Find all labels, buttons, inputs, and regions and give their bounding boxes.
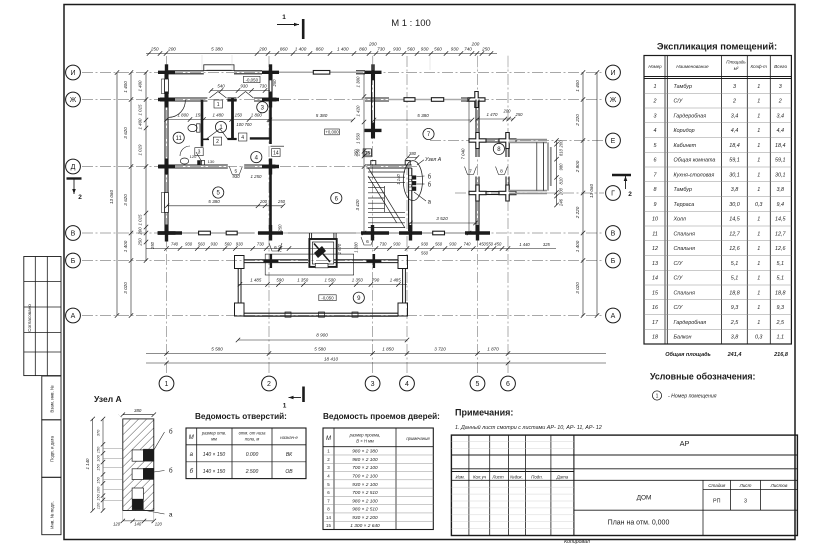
svg-text:8: 8: [500, 169, 503, 175]
svg-text:Изм.: Изм.: [456, 475, 465, 480]
door arc room 11: [169, 100, 185, 118]
svg-text:930: 930: [232, 174, 240, 179]
svg-text:150: 150: [96, 446, 101, 453]
fireplace: [265, 233, 354, 275]
svg-text:5 580: 5 580: [211, 346, 223, 351]
svg-text:назнач-е: назнач-е: [280, 435, 298, 440]
svg-text:Терраса: Терраса: [674, 202, 695, 208]
svg-text:Подп. и дата: Подп. и дата: [50, 436, 55, 462]
svg-text:200: 200: [258, 46, 267, 51]
svg-text:1 480: 1 480: [213, 113, 225, 118]
room number circles: [173, 102, 504, 304]
dimension stair node: [354, 149, 420, 185]
svg-text:1 550: 1 550: [356, 132, 361, 144]
svg-text:120: 120: [96, 502, 101, 509]
partition wardrobe south: [250, 137, 271, 139]
svg-text:6: 6: [654, 158, 657, 164]
svg-text:3 520: 3 520: [436, 216, 448, 221]
room schedule table: [644, 56, 791, 345]
svg-text:14,5: 14,5: [729, 217, 740, 223]
svg-text:450: 450: [494, 242, 502, 247]
svg-text:8 900: 8 900: [316, 333, 328, 338]
axis circles right: [606, 65, 621, 323]
svg-text:216,8: 216,8: [773, 352, 789, 358]
svg-text:200: 200: [138, 227, 143, 236]
svg-text:План на отм. 0,000: План на отм. 0,000: [608, 519, 670, 526]
svg-text:18,8: 18,8: [729, 290, 740, 296]
svg-text:5,1: 5,1: [731, 276, 739, 282]
wall west (axis 1): [158, 72, 176, 241]
svg-text:Б: Б: [611, 258, 616, 265]
terrace: [235, 254, 408, 317]
svg-text:отм. от низа: отм. от низа: [239, 431, 266, 436]
svg-text:2 220: 2 220: [575, 206, 580, 219]
svg-text:4: 4: [241, 135, 244, 141]
dimension right lower: [519, 242, 550, 247]
left GOST strips (Взам/Подп/Инв): [42, 376, 61, 535]
svg-text:АР: АР: [680, 439, 690, 448]
svg-text:Примечания:: Примечания:: [455, 408, 513, 418]
svg-text:980 × 2 380: 980 × 2 380: [352, 449, 378, 455]
svg-text:250: 250: [150, 46, 159, 51]
svg-text:1: 1: [757, 246, 760, 252]
svg-text:4,4: 4,4: [731, 128, 739, 134]
svg-text:590: 590: [276, 278, 284, 283]
svg-text:1 300 × 2 640: 1 300 × 2 640: [350, 523, 380, 529]
svg-text:6: 6: [366, 239, 369, 245]
svg-text:5,1: 5,1: [731, 261, 739, 267]
door mark 6a: [269, 243, 282, 251]
svg-text:930: 930: [449, 242, 457, 247]
svg-text:2: 2: [628, 191, 632, 198]
svg-text:12,7: 12,7: [775, 231, 786, 237]
svg-text:М 1 : 100: М 1 : 100: [391, 18, 431, 29]
svg-text:Коридор: Коридор: [674, 128, 695, 134]
svg-text:Номер: Номер: [648, 64, 662, 69]
svg-text:130: 130: [208, 159, 215, 164]
svg-text:700: 700: [278, 245, 283, 253]
approval strip (Согласовано): [24, 257, 61, 376]
svg-text:740: 740: [464, 46, 472, 51]
svg-text:140 × 150: 140 × 150: [203, 452, 226, 458]
node A dimensions: [85, 408, 162, 527]
svg-text:М: М: [326, 436, 331, 442]
svg-text:1 400: 1 400: [575, 240, 580, 252]
svg-text:1. Данный лист смотри с листам: 1. Данный лист смотри с листами АР- 10, …: [455, 424, 602, 431]
svg-text:Балкон: Балкон: [674, 335, 692, 341]
svg-text:1 400: 1 400: [295, 46, 307, 51]
svg-text:Узел А: Узел А: [94, 394, 122, 404]
svg-text:Тамбур: Тамбур: [674, 84, 692, 90]
svg-text:Узел А: Узел А: [425, 157, 442, 163]
room schedule totals: [665, 351, 789, 358]
svg-text:3,8: 3,8: [731, 187, 739, 193]
elevation -0,050 top: [244, 76, 261, 82]
svg-text:И: И: [70, 70, 75, 77]
svg-text:1 420: 1 420: [356, 105, 361, 117]
node A column: [94, 388, 154, 550]
svg-text:250: 250: [150, 241, 155, 250]
svg-text:150: 150: [96, 463, 101, 470]
svg-text:18: 18: [652, 335, 658, 341]
svg-text:1: 1: [656, 394, 659, 400]
svg-text:980 × 2 100: 980 × 2 100: [352, 498, 378, 504]
svg-text:Экспликация помещений:: Экспликация помещений:: [657, 41, 777, 52]
svg-text:5,1: 5,1: [777, 276, 785, 282]
svg-text:4: 4: [405, 381, 409, 388]
svg-text:930 × 2 100: 930 × 2 100: [352, 482, 378, 488]
svg-text:Дата: Дата: [556, 475, 569, 480]
svg-text:5 580: 5 580: [314, 346, 326, 351]
svg-text:3: 3: [744, 499, 747, 505]
svg-text:1: 1: [757, 99, 760, 105]
stair east wall: [409, 168, 412, 233]
svg-text:100: 100: [96, 486, 101, 493]
door arc wc: [180, 146, 190, 156]
svg-text:810: 810: [559, 177, 564, 185]
svg-text:4: 4: [654, 128, 657, 134]
svg-text:-0,050: -0,050: [246, 77, 259, 82]
svg-text:М: М: [189, 435, 194, 441]
svg-text:пола, м: пола, м: [245, 437, 260, 442]
section mark 1 top: [277, 14, 303, 39]
svg-text:ВК: ВК: [286, 452, 293, 458]
svg-text:6: 6: [506, 381, 510, 388]
dimension 3520: [408, 216, 477, 225]
svg-text:б: б: [169, 467, 173, 475]
svg-text:14,5: 14,5: [775, 217, 786, 223]
svg-text:380: 380: [134, 408, 142, 413]
svg-text:1 400: 1 400: [337, 46, 349, 51]
svg-text:1 350: 1 350: [297, 278, 309, 283]
door mark 6b: [361, 237, 374, 245]
svg-text:18 410: 18 410: [324, 356, 338, 361]
svg-text:1 400: 1 400: [138, 80, 143, 92]
svg-text:5 380: 5 380: [208, 199, 220, 204]
svg-text:560: 560: [225, 242, 233, 247]
door mark 5: [229, 167, 242, 175]
svg-text:325: 325: [543, 242, 551, 247]
section mark 2 left: [67, 179, 83, 202]
svg-text:930: 930: [211, 242, 219, 247]
wall east (axis 5): [469, 100, 486, 234]
svg-text:Гардеробная: Гардеробная: [674, 113, 707, 119]
svg-text:2: 2: [216, 139, 219, 145]
svg-text:250: 250: [277, 199, 286, 204]
svg-text:примечания: примечания: [406, 436, 430, 441]
svg-text:1: 1: [757, 84, 760, 90]
svg-text:Всего: Всего: [774, 64, 787, 69]
svg-text:Ж: Ж: [70, 97, 77, 104]
svg-text:540: 540: [217, 84, 225, 89]
svg-text:5: 5: [476, 381, 480, 388]
svg-text:1: 1: [757, 261, 760, 267]
svg-text:3 620: 3 620: [123, 127, 128, 139]
svg-text:В × Н мм: В × Н мм: [356, 439, 374, 444]
svg-text:3 720: 3 720: [434, 346, 446, 351]
dimension row tambour top: [209, 84, 270, 93]
stair column node A: [403, 157, 441, 205]
dimension column axis3: [355, 73, 366, 236]
svg-text:930 × 2 200: 930 × 2 200: [352, 515, 378, 521]
svg-text:250: 250: [354, 149, 359, 158]
svg-text:И: И: [610, 70, 615, 77]
svg-text:2,5: 2,5: [730, 320, 739, 326]
svg-text:а: а: [169, 512, 173, 519]
svg-text:740: 740: [464, 242, 472, 247]
svg-text:2,5: 2,5: [776, 320, 785, 326]
svg-text:100: 100: [96, 454, 101, 461]
svg-text:3 020: 3 020: [575, 282, 580, 294]
small 250 labels: [272, 79, 283, 233]
dimension chains bottom: [146, 333, 606, 366]
svg-text:30,1: 30,1: [729, 172, 740, 178]
svg-text:Копировал: Копировал: [564, 539, 590, 545]
svg-text:С/У: С/У: [674, 261, 683, 267]
svg-text:11: 11: [176, 136, 183, 142]
svg-text:730: 730: [257, 242, 265, 247]
svg-text:Е: Е: [611, 138, 616, 145]
svg-text:№док.: №док.: [510, 475, 523, 480]
dimension chain top: [146, 42, 508, 71]
svg-text:3,8: 3,8: [777, 187, 785, 193]
svg-text:1 400: 1 400: [138, 118, 143, 130]
svg-text:930: 930: [236, 242, 244, 247]
svg-text:30,1: 30,1: [775, 172, 786, 178]
svg-text:18,4: 18,4: [775, 143, 786, 149]
svg-text:1,1: 1,1: [777, 335, 785, 341]
title block: [451, 435, 797, 535]
svg-text:16: 16: [652, 305, 658, 311]
svg-text:13: 13: [652, 261, 658, 267]
notes: [455, 408, 602, 432]
door mark 8: [496, 167, 508, 175]
svg-text:980: 980: [559, 163, 564, 171]
svg-text:Холл: Холл: [673, 217, 686, 223]
svg-text:2.500: 2.500: [245, 469, 259, 475]
svg-text:1: 1: [757, 320, 760, 326]
openings table: [186, 412, 306, 479]
svg-text:120: 120: [155, 522, 163, 527]
svg-text:3: 3: [733, 84, 736, 90]
svg-text:200: 200: [167, 46, 176, 51]
svg-text:790: 790: [372, 278, 380, 283]
svg-text:11: 11: [652, 231, 658, 237]
svg-text:б: б: [428, 182, 432, 188]
wc fixtures lower: [180, 152, 204, 165]
svg-text:1 440: 1 440: [519, 242, 530, 247]
svg-text:Листов: Листов: [770, 483, 788, 488]
svg-text:9,3: 9,3: [731, 305, 739, 311]
door mark 7: [465, 167, 477, 175]
svg-text:5 380: 5 380: [211, 46, 223, 51]
svg-text:1 300: 1 300: [356, 76, 361, 88]
svg-text:5 380: 5 380: [316, 113, 328, 118]
svg-text:ДОМ: ДОМ: [637, 494, 652, 501]
svg-text:7 040: 7 040: [461, 148, 466, 160]
svg-text:Д: Д: [71, 164, 76, 171]
svg-text:15: 15: [365, 150, 371, 155]
svg-text:1: 1: [654, 84, 657, 90]
svg-text:5,1: 5,1: [777, 261, 785, 267]
svg-text:250: 250: [515, 112, 524, 117]
partition tambour east: [227, 98, 236, 140]
svg-text:С/У: С/У: [674, 99, 683, 105]
elevation -0,050 terrace: [319, 295, 336, 301]
svg-text:1 400: 1 400: [123, 81, 128, 93]
svg-text:Общая комната: Общая комната: [674, 158, 716, 164]
svg-text:17: 17: [652, 320, 659, 326]
svg-text:3: 3: [654, 113, 657, 119]
svg-text:12,6: 12,6: [729, 246, 740, 252]
wall north (axis И): [158, 64, 382, 80]
svg-text:Гардеробная: Гардеробная: [674, 320, 707, 326]
wall axis Г segment: [486, 192, 499, 195]
svg-text:560: 560: [421, 251, 429, 256]
svg-text:13 060: 13 060: [109, 190, 114, 204]
svg-text:1: 1: [757, 290, 760, 296]
svg-text:700 × 2 510: 700 × 2 510: [352, 490, 378, 496]
svg-text:860: 860: [316, 46, 324, 51]
dimension door 5: [232, 174, 262, 179]
svg-text:1 670: 1 670: [337, 243, 342, 254]
dimension 7040: [461, 97, 472, 235]
svg-text:3 620: 3 620: [123, 194, 128, 206]
elevation +0,000: [325, 129, 340, 135]
svg-text:14: 14: [273, 151, 279, 157]
svg-text:Спальня: Спальня: [674, 231, 696, 237]
svg-text:810: 810: [559, 148, 564, 156]
svg-text:9: 9: [654, 202, 657, 208]
svg-text:250: 250: [272, 79, 277, 88]
svg-text:1 850: 1 850: [382, 346, 394, 351]
svg-text:930: 930: [185, 242, 193, 247]
svg-text:560: 560: [434, 46, 442, 51]
svg-text:1: 1: [165, 381, 169, 388]
svg-text:С/У: С/У: [674, 305, 683, 311]
svg-text:Кол.уч: Кол.уч: [473, 475, 487, 480]
section mark 2 right: [612, 175, 632, 198]
dimension chains left: [109, 70, 148, 317]
legend: [650, 372, 756, 401]
svg-text:- Номер помещения: - Номер помещения: [668, 394, 717, 400]
svg-text:Стадия: Стадия: [708, 483, 726, 488]
svg-text:1 350: 1 350: [352, 278, 364, 283]
svg-text:12: 12: [652, 246, 658, 252]
svg-text:0,3: 0,3: [755, 202, 763, 208]
svg-text:Наименование: Наименование: [676, 64, 709, 69]
svg-text:140 × 150: 140 × 150: [203, 469, 226, 475]
svg-text:1 280: 1 280: [354, 242, 359, 253]
svg-text:1 140: 1 140: [396, 174, 401, 185]
svg-text:Спальня: Спальня: [674, 246, 696, 252]
svg-text:1: 1: [757, 143, 760, 149]
svg-text:2 800: 2 800: [575, 160, 580, 173]
svg-text:1 470: 1 470: [487, 112, 499, 117]
svg-text:мм: мм: [211, 437, 217, 442]
svg-text:15: 15: [326, 523, 331, 528]
svg-text:730: 730: [380, 242, 388, 247]
svg-text:3,4: 3,4: [777, 113, 785, 119]
svg-text:3 020: 3 020: [123, 282, 128, 294]
wall axis Ж: [160, 92, 485, 108]
svg-text:размер отв.: размер отв.: [201, 431, 226, 436]
svg-text:930: 930: [421, 46, 429, 51]
horizontal axis lines: [82, 73, 604, 316]
svg-text:980 × 2 510: 980 × 2 510: [352, 507, 378, 513]
dimension porch top: [475, 109, 523, 122]
svg-text:1 250: 1 250: [251, 174, 263, 179]
svg-text:1: 1: [757, 231, 760, 237]
svg-text:7: 7: [469, 169, 472, 175]
svg-text:120: 120: [113, 522, 121, 527]
svg-text:1 800: 1 800: [251, 113, 263, 118]
svg-text:980 × 2 100: 980 × 2 100: [352, 457, 378, 463]
svg-text:1 400: 1 400: [123, 240, 128, 252]
svg-text:б: б: [428, 174, 432, 180]
door openings table: [323, 412, 440, 530]
svg-text:200: 200: [559, 187, 564, 196]
svg-text:250: 250: [481, 46, 490, 51]
svg-text:Кухня-столовая: Кухня-столовая: [674, 172, 715, 178]
east entrance steps: [509, 140, 551, 194]
svg-text:А: А: [611, 313, 616, 320]
svg-text:18,4: 18,4: [729, 143, 740, 149]
svg-text:150: 150: [195, 113, 203, 118]
svg-text:1: 1: [283, 403, 287, 410]
svg-text:Г: Г: [611, 191, 615, 198]
dimension row terrace: [238, 278, 407, 287]
svg-text:860: 860: [359, 46, 367, 51]
svg-text:1: 1: [757, 128, 760, 134]
svg-text:Инв. № подл.: Инв. № подл.: [50, 501, 55, 528]
door swing marks vestibule: [206, 92, 254, 140]
svg-text:241,4: 241,4: [727, 352, 742, 358]
svg-text:Согласовано: Согласовано: [27, 304, 32, 332]
dimension row rooms 1-3: [164, 113, 271, 128]
svg-text:30,0: 30,0: [729, 202, 740, 208]
svg-text:В: В: [71, 231, 76, 238]
wall axis 2: [262, 73, 284, 233]
svg-text:3: 3: [371, 381, 375, 388]
wall south (axis В): [158, 225, 490, 241]
svg-text:200: 200: [559, 140, 564, 149]
svg-text:1: 1: [757, 305, 760, 311]
svg-text:246: 246: [559, 198, 564, 207]
svg-text:200: 200: [259, 199, 268, 204]
svg-text:5 380: 5 380: [417, 113, 429, 118]
svg-text:12,7: 12,7: [729, 231, 740, 237]
vertical axis lines: [167, 56, 509, 373]
svg-text:1: 1: [282, 14, 286, 21]
svg-text:1 500: 1 500: [325, 278, 337, 283]
svg-text:1 870: 1 870: [487, 346, 499, 351]
dimension chains right: [554, 70, 599, 317]
svg-text:2: 2: [732, 99, 736, 105]
svg-text:700 × 2 100: 700 × 2 100: [352, 465, 378, 471]
svg-text:3: 3: [198, 150, 201, 156]
svg-text:15: 15: [652, 290, 659, 296]
svg-text:1: 1: [757, 276, 760, 282]
svg-text:13 060: 13 060: [589, 184, 594, 198]
svg-text:930: 930: [393, 242, 401, 247]
svg-text:-0,050: -0,050: [321, 296, 334, 301]
svg-text:1 400: 1 400: [575, 80, 580, 92]
svg-text:370: 370: [96, 429, 101, 436]
svg-text:120: 120: [190, 154, 197, 159]
dimension row room 5: [165, 199, 286, 208]
svg-text:Коэф-т: Коэф-т: [751, 64, 768, 69]
